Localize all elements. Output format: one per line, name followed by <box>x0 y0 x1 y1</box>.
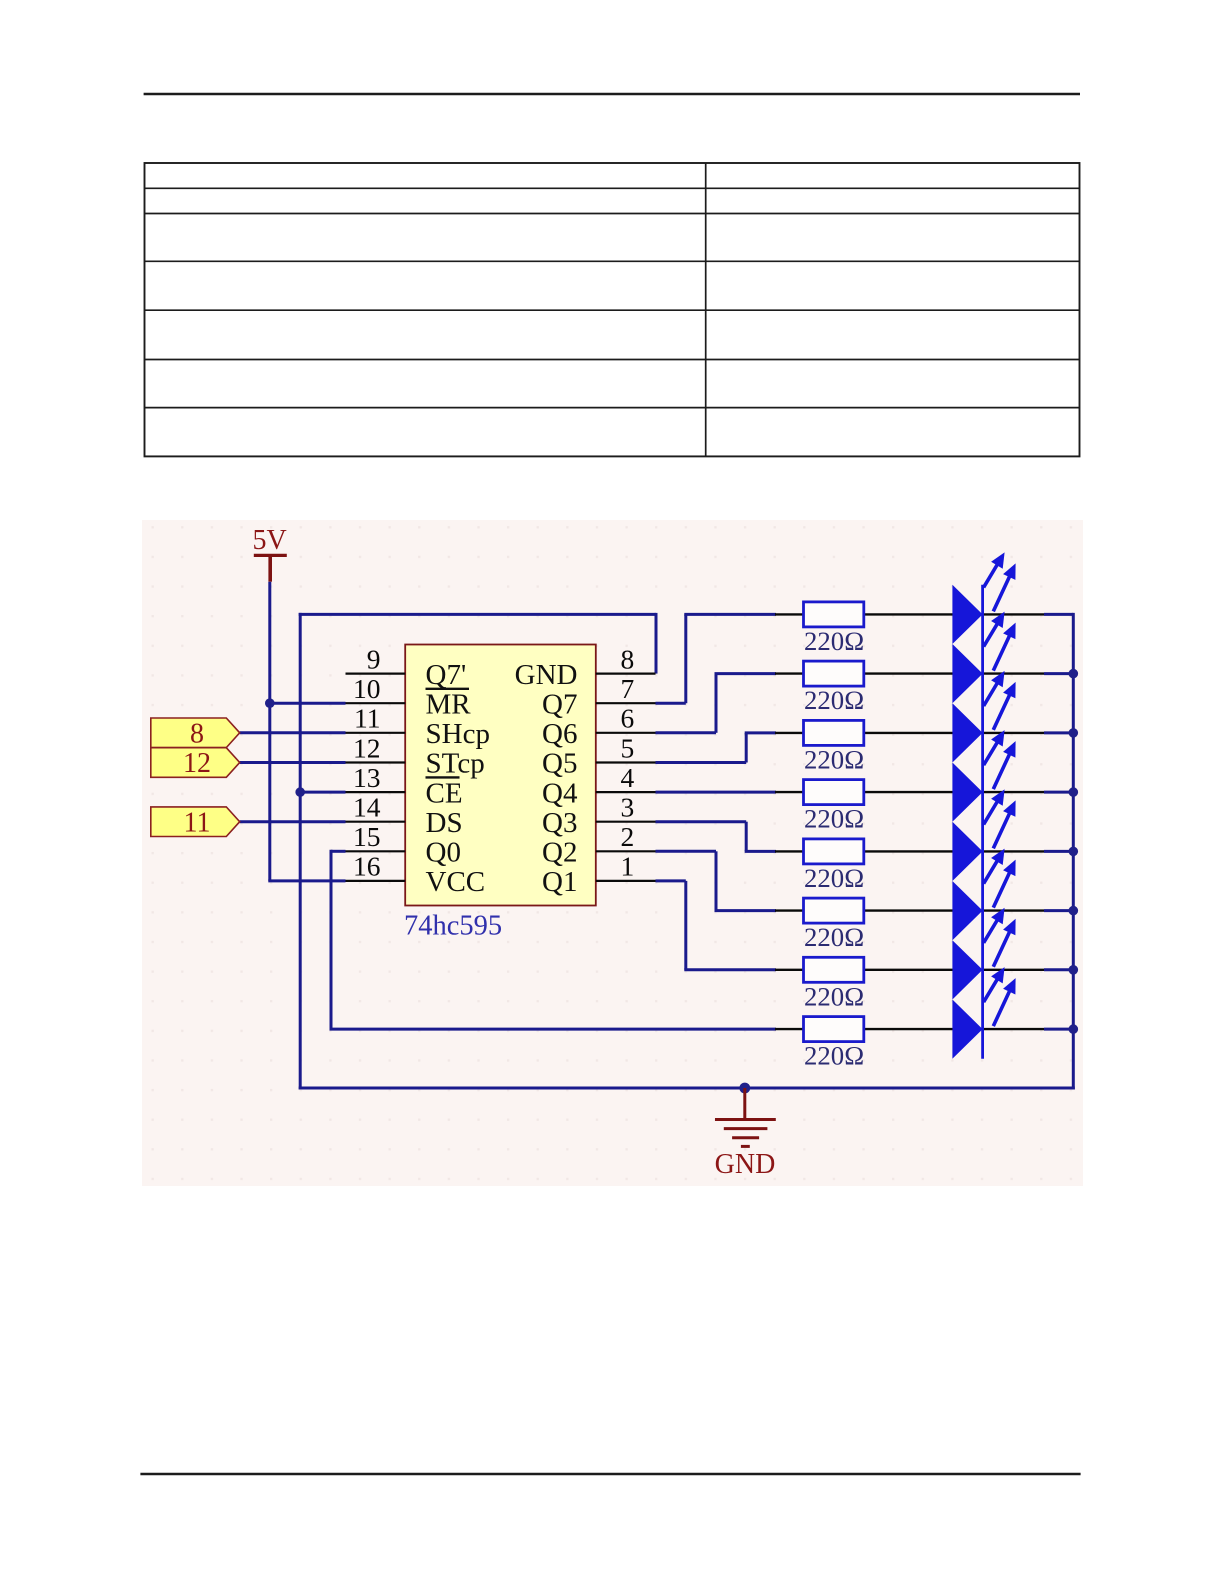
wire GND top rail <box>299 613 656 1090</box>
svg-text:15: 15 <box>353 821 381 852</box>
svg-text:Q4: Q4 <box>542 777 578 809</box>
svg-text:9: 9 <box>367 643 381 674</box>
svg-text:GND: GND <box>715 1149 776 1180</box>
svg-text:DS: DS <box>426 807 463 839</box>
svg-text:10: 10 <box>353 673 381 704</box>
wire row 6 leads (black) <box>775 909 1044 911</box>
svg-text:Q0: Q0 <box>426 837 461 869</box>
wire row 4 leads (black) <box>775 791 1044 793</box>
svg-text:Q2: Q2 <box>542 837 577 869</box>
svg-text:3: 3 <box>621 792 635 823</box>
pin 13 (CE) left stub and number <box>346 762 406 793</box>
junction dot rail row 5 <box>1069 847 1079 857</box>
overline MR <box>426 688 470 690</box>
svg-text:11: 11 <box>184 807 211 838</box>
wire row 6 to rail <box>1044 909 1073 912</box>
svg-text:74hc595: 74hc595 <box>404 911 502 942</box>
wire Q5 to row 3 <box>656 733 777 763</box>
svg-text:8: 8 <box>621 643 635 674</box>
IC U1 74hc595 body <box>405 645 596 906</box>
pin 10 (MR) left stub and number <box>346 673 406 704</box>
svg-text:12: 12 <box>353 732 381 763</box>
svg-text:8: 8 <box>190 718 204 749</box>
svg-text:12: 12 <box>183 748 211 779</box>
svg-text:Q7: Q7 <box>542 688 577 720</box>
LED D2 <box>952 612 1015 704</box>
wire row 7 to rail <box>1044 968 1073 971</box>
wire pin8 GND down from top rail <box>655 613 658 674</box>
wire row 3 to rail <box>1044 731 1073 734</box>
wire bottom ground rail <box>299 1087 1075 1090</box>
LED D5 <box>952 789 1015 881</box>
svg-text:220Ω: 220Ω <box>804 922 864 952</box>
pin 11 (SHcp) left stub and number <box>346 703 406 734</box>
pin 1 (Q1) right stub and number <box>596 851 656 882</box>
svg-text:220Ω: 220Ω <box>804 626 864 656</box>
wire Q3 to row 5 <box>656 822 777 852</box>
LED D1 <box>952 552 1015 644</box>
pin 12 (STcp) left stub and number <box>346 732 406 763</box>
wire 5V vertical to VCC <box>268 582 345 881</box>
ground symbol GND <box>715 1088 776 1180</box>
svg-text:MR: MR <box>426 688 472 720</box>
svg-text:14: 14 <box>353 792 381 823</box>
page header rule <box>144 93 1080 95</box>
junction dot rail row 3 <box>1069 728 1079 738</box>
pin 9 (Q7&#39;) left stub and number <box>346 643 406 674</box>
svg-text:VCC: VCC <box>426 866 486 898</box>
junction dot rail row 4 <box>1069 787 1079 797</box>
junction dot MR/5V <box>265 698 275 708</box>
pin 2 (Q2) right stub and number <box>596 821 656 852</box>
wire row 2 leads (black) <box>775 672 1044 674</box>
svg-text:220Ω: 220Ω <box>804 1041 864 1071</box>
svg-text:7: 7 <box>621 673 635 704</box>
LED D8 <box>952 967 1015 1059</box>
svg-text:Q7': Q7' <box>426 659 467 691</box>
junction dot ground tap <box>739 1083 750 1094</box>
wire Q6 to row 2 <box>656 674 777 733</box>
pin 16 (VCC) left stub and number <box>346 851 406 882</box>
pin 5 (Q5) right stub and number <box>596 732 656 763</box>
resistor R6 220&#937; <box>804 898 865 952</box>
overline CE <box>426 776 460 778</box>
svg-text:GND: GND <box>515 659 578 691</box>
wire right rail <box>1072 613 1075 1090</box>
junction dot rail row 6 <box>1069 906 1079 916</box>
wire row 1 leads (black) <box>775 613 1044 615</box>
wire net 8 to SHcp <box>240 731 346 734</box>
svg-text:Q6: Q6 <box>542 718 577 750</box>
svg-text:13: 13 <box>353 762 381 793</box>
resistor R2 220&#937; <box>804 661 865 715</box>
svg-text:SHcp: SHcp <box>426 718 490 750</box>
wire row 5 leads (black) <box>775 850 1044 852</box>
svg-text:4: 4 <box>621 762 635 793</box>
resistor R3 220&#937; <box>804 720 865 774</box>
svg-text:STcp: STcp <box>426 748 485 780</box>
svg-text:CE: CE <box>426 777 463 809</box>
wire row 8 to rail <box>1044 1028 1073 1031</box>
resistor R4 220&#937; <box>804 780 865 834</box>
pin 14 (DS) left stub and number <box>346 792 406 823</box>
empty table <box>145 163 1080 456</box>
junction dot rail row 2 <box>1069 669 1079 679</box>
pin 4 (Q4) right stub and number <box>596 762 656 793</box>
wire row 2 to rail <box>1044 672 1073 675</box>
wire row 1 to rail <box>1044 613 1073 616</box>
LED cathode bar <box>981 585 984 1059</box>
wire Q0 to row 8 <box>330 850 777 1029</box>
pin 3 (Q3) right stub and number <box>596 792 656 823</box>
junction dot rail row 8 <box>1069 1024 1079 1034</box>
wire row 5 to rail <box>1044 850 1073 853</box>
resistor R7 220&#937; <box>804 957 865 1011</box>
wire Q2 to row 6 <box>656 851 777 910</box>
svg-text:5: 5 <box>621 732 635 763</box>
page footer rule <box>140 1473 1080 1475</box>
schematic background <box>142 520 1083 1186</box>
net label 12 (STcp) <box>151 748 240 779</box>
net label 8 (SHcp) <box>151 718 240 749</box>
wire Q1 to row 7 <box>656 881 777 970</box>
wire row 3 leads (black) <box>775 732 1044 734</box>
pin 6 (Q6) right stub and number <box>596 703 656 734</box>
svg-text:220Ω: 220Ω <box>804 804 864 834</box>
wire row 7 leads (black) <box>775 969 1044 971</box>
LED D3 <box>952 671 1015 763</box>
net label 11 (DS) <box>151 807 240 838</box>
svg-text:1: 1 <box>621 851 635 882</box>
resistor R5 220&#937; <box>804 839 865 893</box>
svg-text:6: 6 <box>621 703 635 734</box>
svg-text:2: 2 <box>621 821 635 852</box>
wire Q7 to row 1 <box>656 614 777 703</box>
pin 7 (Q7) right stub and number <box>596 673 656 704</box>
svg-text:220Ω: 220Ω <box>804 863 864 893</box>
svg-text:Q3: Q3 <box>542 807 577 839</box>
pin 8 (GND) right stub and number <box>596 643 656 674</box>
junction dot rail row 7 <box>1069 965 1079 975</box>
svg-text:220Ω: 220Ω <box>804 685 864 715</box>
wire row 8 leads (black) <box>775 1028 1044 1030</box>
wire net 11 to DS <box>240 820 346 823</box>
power symbol 5V <box>253 525 287 582</box>
svg-text:220Ω: 220Ω <box>804 981 864 1011</box>
svg-text:5V: 5V <box>253 525 287 556</box>
svg-text:16: 16 <box>353 851 381 882</box>
LED D7 <box>952 908 1015 1000</box>
resistor R1 220&#937; <box>804 602 865 656</box>
svg-text:Q5: Q5 <box>542 748 577 780</box>
resistor R8 220&#937; <box>804 1017 865 1071</box>
wire row 4 to rail <box>1044 791 1073 794</box>
wire Q4 to row 4 <box>656 791 777 794</box>
pin 15 (Q0) left stub and number <box>346 821 406 852</box>
svg-text:Q1: Q1 <box>542 866 577 898</box>
junction dot CE <box>295 787 305 797</box>
svg-text:11: 11 <box>354 703 380 734</box>
wire net 12 to STcp <box>240 761 346 764</box>
svg-text:220Ω: 220Ω <box>804 745 864 775</box>
LED D6 <box>952 849 1015 941</box>
wire MR to 5V net <box>270 702 346 705</box>
wire CE to ground net <box>300 791 345 794</box>
LED D4 <box>952 730 1015 822</box>
